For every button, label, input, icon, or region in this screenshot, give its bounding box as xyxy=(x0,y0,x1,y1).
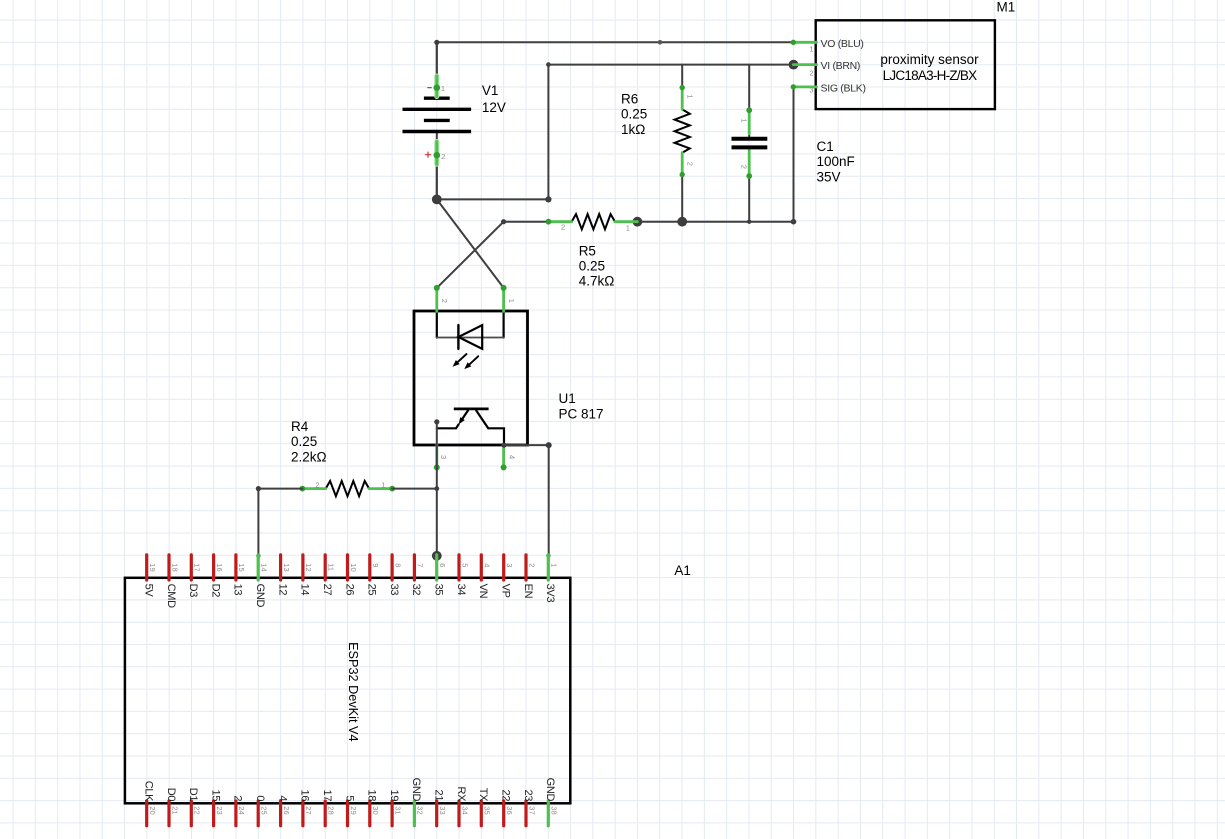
svg-text:3: 3 xyxy=(809,86,813,95)
svg-text:12: 12 xyxy=(276,584,288,596)
battery V1 12V xyxy=(403,42,472,199)
resistor R4 2.2k (horizontal) xyxy=(326,481,369,496)
ESP32 top pin 2 (EN) xyxy=(524,555,527,580)
svg-text:TX: TX xyxy=(477,788,489,802)
R4 pin 2 leg xyxy=(300,486,326,492)
R6 pin 2 leg xyxy=(680,153,685,178)
svg-text:VP: VP xyxy=(500,584,512,598)
wire R4 pin2 to ESP32 GND xyxy=(256,486,303,558)
svg-text:D0: D0 xyxy=(165,788,177,802)
ESP32 top pin 18 (CMD) xyxy=(167,555,170,580)
battery V1 pin 1 (negative leg) xyxy=(434,76,441,97)
svg-text:2: 2 xyxy=(440,299,449,303)
wire R6 bottom tap xyxy=(681,175,683,222)
ESP32 bottom pin 20 (CLK) xyxy=(145,801,148,826)
U1 LED internal wiring xyxy=(437,312,504,338)
wire node A to corner B xyxy=(437,196,552,202)
battery plus sign xyxy=(425,152,430,157)
svg-text:16: 16 xyxy=(215,563,224,571)
svg-text:5V: 5V xyxy=(143,584,155,598)
U1 LED emission arrows xyxy=(453,354,479,369)
svg-text:1kΩ: 1kΩ xyxy=(621,122,645,137)
ESP32 top pin 4 (VN) xyxy=(480,555,483,580)
svg-text:17: 17 xyxy=(321,790,333,802)
battery minus sign xyxy=(428,87,431,89)
svg-text:18: 18 xyxy=(366,790,378,802)
svg-text:26: 26 xyxy=(343,584,355,596)
resistor R5 4.7k (horizontal) xyxy=(572,214,615,229)
svg-text:18: 18 xyxy=(170,563,179,571)
M1 pin 1 VO leg xyxy=(791,40,817,45)
svg-text:23: 23 xyxy=(522,790,534,802)
svg-text:GND: GND xyxy=(544,778,556,802)
svg-text:14: 14 xyxy=(299,584,311,596)
svg-text:28: 28 xyxy=(327,806,336,814)
ESP32 bottom pin 38 (GND) xyxy=(547,801,550,826)
ESP32 top pin 12 (14) xyxy=(301,555,304,580)
wire diagonal node A to U1 pin1 xyxy=(437,199,504,288)
svg-text:7: 7 xyxy=(416,563,425,567)
svg-text:M1: M1 xyxy=(997,0,1016,15)
label R4 0.25 2.2kΩ xyxy=(291,419,327,464)
wire R5 pin1 to R6/C1/SIG (bottom horizontal) xyxy=(637,219,796,225)
wire R4 pin1 to pin35 net xyxy=(392,486,439,491)
wire R5 pin2 to corner C xyxy=(501,219,548,224)
svg-text:19: 19 xyxy=(148,563,157,571)
ESP32 top pin 9 (25) xyxy=(368,555,371,580)
U1 pin 3 leg xyxy=(434,445,440,471)
C1 pin 1 leg xyxy=(746,107,752,133)
svg-text:9: 9 xyxy=(371,563,380,567)
ESP32 bottom pin 25 (0) xyxy=(257,801,260,826)
svg-text:C1: C1 xyxy=(817,139,834,154)
svg-text:100nF: 100nF xyxy=(817,154,855,169)
M1 pin 3 SIG leg xyxy=(791,84,817,89)
op-amp U1 PC817 box xyxy=(414,311,528,445)
proximity sensor M1 box xyxy=(816,20,995,109)
svg-text:25: 25 xyxy=(260,806,269,814)
svg-text:R4: R4 xyxy=(291,419,309,434)
svg-text:29: 29 xyxy=(349,806,358,814)
svg-text:21: 21 xyxy=(170,806,179,814)
svg-text:CLK: CLK xyxy=(143,781,155,802)
svg-text:1: 1 xyxy=(626,224,630,233)
svg-text:37: 37 xyxy=(527,806,536,814)
svg-text:1: 1 xyxy=(382,481,386,490)
svg-text:3: 3 xyxy=(439,455,448,459)
svg-text:31: 31 xyxy=(393,806,402,814)
ESP32 top pin 7 (32) xyxy=(413,555,416,580)
ESP32 bottom pin 28 (17) xyxy=(324,801,327,826)
U1 phototransistor xyxy=(437,409,504,445)
ESP32 top pin 13 (12) xyxy=(279,555,282,580)
svg-text:6: 6 xyxy=(438,563,447,567)
svg-text:LJC18A3-H-Z/BX: LJC18A3-H-Z/BX xyxy=(883,68,978,83)
M1 part text xyxy=(880,52,979,83)
ESP32 DevKit A1 box xyxy=(125,578,570,804)
svg-text:0: 0 xyxy=(254,795,266,801)
ESP32 top pin 3 (VP) xyxy=(502,555,505,580)
svg-text:36: 36 xyxy=(505,806,514,814)
svg-text:2: 2 xyxy=(739,165,748,169)
svg-text:CMD: CMD xyxy=(165,584,177,609)
svg-text:34: 34 xyxy=(460,806,469,814)
ESP32 bottom pin 26 (4) xyxy=(279,801,282,826)
svg-text:3: 3 xyxy=(505,563,514,567)
svg-text:EN: EN xyxy=(522,584,534,599)
label R6 0.25 1kΩ xyxy=(621,92,647,137)
wire U1 pin3 to ESP32 pin 35 xyxy=(434,419,439,556)
svg-text:D3: D3 xyxy=(187,584,199,598)
junction at M1 VI pin xyxy=(789,60,799,70)
ESP32 top pin 14 (GND) xyxy=(257,555,260,580)
wire to M1 VI (second horizontal) xyxy=(548,64,793,66)
svg-text:2: 2 xyxy=(685,162,694,166)
junction at ESP32 pin 35 xyxy=(432,551,442,561)
svg-text:2: 2 xyxy=(561,223,565,232)
ESP32 bottom pin 34 (RX) xyxy=(457,801,460,826)
svg-text:4: 4 xyxy=(483,563,492,567)
label C1 100nF 35V xyxy=(817,139,855,184)
ESP32 bottom pin 27 (16) xyxy=(301,801,304,826)
svg-text:2: 2 xyxy=(809,69,813,78)
svg-text:1: 1 xyxy=(507,299,516,303)
svg-text:11: 11 xyxy=(327,563,336,571)
ESP32 bottom pin 30 (18) xyxy=(368,801,371,826)
svg-text:GND: GND xyxy=(254,584,266,608)
svg-text:V1: V1 xyxy=(482,83,499,98)
svg-text:32: 32 xyxy=(416,806,425,814)
svg-text:GND: GND xyxy=(410,778,422,802)
svg-text:0.25: 0.25 xyxy=(579,259,605,274)
svg-text:R6: R6 xyxy=(621,92,638,107)
svg-text:SIG (BLK): SIG (BLK) xyxy=(821,82,866,94)
svg-text:20: 20 xyxy=(148,806,157,814)
svg-text:22: 22 xyxy=(500,790,512,802)
label R5 0.25 4.7kΩ xyxy=(579,243,615,288)
svg-text:15: 15 xyxy=(209,790,221,802)
svg-text:4.7kΩ: 4.7kΩ xyxy=(579,274,615,289)
R5 pin 2 leg xyxy=(546,219,572,225)
R6 pin 1 leg xyxy=(680,85,685,110)
ESP32 bottom pin 37 (23) xyxy=(524,801,527,826)
svg-text:4: 4 xyxy=(276,795,288,801)
ESP32 top pin 19 (5V) xyxy=(145,555,148,580)
svg-text:U1: U1 xyxy=(559,391,576,406)
svg-text:5: 5 xyxy=(460,563,469,567)
svg-text:33: 33 xyxy=(388,584,400,596)
svg-text:2.2kΩ: 2.2kΩ xyxy=(291,449,327,464)
wire U1 pin4 to ESP32 3V3 xyxy=(501,442,551,558)
wire corner B up xyxy=(546,62,551,199)
svg-text:35: 35 xyxy=(433,584,445,596)
M1 pin 2 VI leg xyxy=(793,63,816,66)
svg-text:12V: 12V xyxy=(482,100,506,115)
wire up to M1 SIG xyxy=(793,87,795,222)
svg-text:24: 24 xyxy=(237,806,246,814)
ESP32 bottom pin 31 (19) xyxy=(391,801,394,826)
svg-text:13: 13 xyxy=(232,584,244,596)
junction R6 bottom xyxy=(677,217,687,227)
R5 pin 1 leg xyxy=(615,220,637,223)
svg-text:16: 16 xyxy=(299,790,311,802)
ESP32 bottom pin 29 (5) xyxy=(346,801,349,826)
wire R6 top tap xyxy=(681,65,683,88)
ESP32 top pin 6 (35) xyxy=(435,555,438,580)
svg-text:RX: RX xyxy=(455,787,467,803)
svg-text:17: 17 xyxy=(193,563,202,571)
svg-text:ESP32 DevKit V4: ESP32 DevKit V4 xyxy=(346,642,360,741)
battery V1 pin 2 (positive leg) xyxy=(434,142,441,165)
wire diagonal corner C to U1 pin2 xyxy=(437,222,504,288)
svg-text:26: 26 xyxy=(282,806,291,814)
ESP32 bottom pin 24 (2) xyxy=(234,801,237,826)
capacitor C1 100nF xyxy=(732,139,768,148)
svg-text:1: 1 xyxy=(441,84,445,93)
svg-text:4: 4 xyxy=(508,455,517,459)
svg-text:38: 38 xyxy=(550,806,559,814)
svg-text:2: 2 xyxy=(232,795,244,801)
svg-text:0.25: 0.25 xyxy=(291,434,317,449)
junction node A xyxy=(432,195,442,205)
svg-text:30: 30 xyxy=(371,806,380,814)
junction R5-R6 xyxy=(633,217,643,227)
R4 pin 1 leg xyxy=(369,486,395,492)
ESP32 bottom pin 22 (D1) xyxy=(190,801,193,826)
svg-text:27: 27 xyxy=(321,584,333,596)
U1 pin 1 leg xyxy=(501,285,507,311)
ESP32 top pin 16 (D2) xyxy=(212,555,215,580)
svg-text:D1: D1 xyxy=(187,788,199,802)
svg-text:3V3: 3V3 xyxy=(544,584,556,603)
C1 pin 2 leg xyxy=(746,151,752,179)
wire C1 bottom tap xyxy=(748,150,750,222)
svg-text:5: 5 xyxy=(343,795,355,801)
ESP32 top pin 10 (26) xyxy=(346,555,349,580)
svg-text:0.25: 0.25 xyxy=(621,107,647,122)
svg-text:VN: VN xyxy=(477,584,489,599)
svg-text:12: 12 xyxy=(304,563,313,571)
svg-text:35V: 35V xyxy=(817,169,841,184)
svg-text:35: 35 xyxy=(483,806,492,814)
svg-text:21: 21 xyxy=(433,790,445,802)
svg-text:10: 10 xyxy=(349,563,358,571)
svg-text:23: 23 xyxy=(215,806,224,814)
wire battery+ to M1 VO (top horizontal) xyxy=(437,42,793,87)
U1 pin 4 leg xyxy=(501,445,507,471)
ESP32 top pin 1 (3V3) xyxy=(547,555,550,580)
label V1 12V xyxy=(482,83,506,115)
svg-text:D2: D2 xyxy=(209,584,221,598)
U1 pin 2 leg xyxy=(434,285,440,311)
svg-text:32: 32 xyxy=(410,584,422,596)
svg-text:1: 1 xyxy=(685,95,694,99)
U1 LED diode xyxy=(458,325,482,349)
ESP32 bottom pin 32 (GND) xyxy=(413,801,416,826)
svg-text:1: 1 xyxy=(809,45,813,54)
svg-text:R5: R5 xyxy=(579,243,596,258)
svg-text:14: 14 xyxy=(260,563,269,571)
wire battery- down to node A xyxy=(436,155,438,199)
svg-text:25: 25 xyxy=(366,584,378,596)
ESP32 top pin 5 (34) xyxy=(457,555,460,580)
svg-text:VI (BRN): VI (BRN) xyxy=(821,60,861,72)
svg-text:13: 13 xyxy=(282,563,291,571)
ESP32 bottom pin 36 (22) xyxy=(502,801,505,826)
svg-text:8: 8 xyxy=(393,563,402,567)
ESP32 bottom pin 35 (TX) xyxy=(480,801,483,826)
ESP32 top pin 8 (33) xyxy=(391,555,394,580)
svg-text:VO (BLU): VO (BLU) xyxy=(821,38,864,50)
ESP32 top pin 15 (13) xyxy=(234,555,237,580)
svg-text:1: 1 xyxy=(739,119,748,123)
svg-text:1: 1 xyxy=(550,563,559,567)
ESP32 bottom pin 33 (21) xyxy=(435,801,438,826)
wire bendpoint xyxy=(434,40,662,45)
svg-text:A1: A1 xyxy=(674,563,691,578)
resistor R6 1k (vertical) xyxy=(675,109,690,152)
svg-text:34: 34 xyxy=(455,584,467,596)
ESP32 top pin 17 (D3) xyxy=(190,555,193,580)
svg-text:PC 817: PC 817 xyxy=(559,406,604,421)
ESP32 top pin 11 (27) xyxy=(324,555,327,580)
ESP32 bottom pin 21 (D0) xyxy=(167,801,170,826)
wire C1 top tap xyxy=(748,65,750,137)
svg-text:2: 2 xyxy=(441,152,445,161)
svg-text:19: 19 xyxy=(388,790,400,802)
svg-text:33: 33 xyxy=(438,806,447,814)
label U1 PC 817 xyxy=(559,391,604,421)
svg-text:2: 2 xyxy=(527,563,536,567)
svg-text:22: 22 xyxy=(193,806,202,814)
ESP32 bottom pin 23 (15) xyxy=(212,801,215,826)
svg-text:proximity sensor: proximity sensor xyxy=(880,52,979,67)
svg-text:27: 27 xyxy=(304,806,313,814)
svg-text:15: 15 xyxy=(237,563,246,571)
svg-text:2: 2 xyxy=(315,481,319,490)
